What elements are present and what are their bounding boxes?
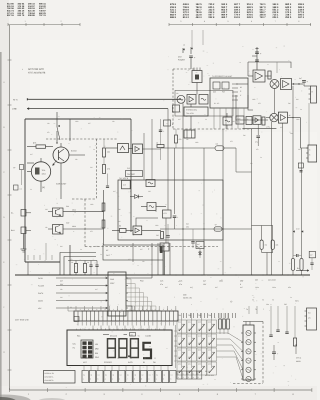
diode D1	[130, 195, 143, 199]
svg-text:FLASH: FLASH	[38, 285, 45, 288]
svg-text:MW: MW	[95, 348, 99, 351]
svg-text:100n: 100n	[219, 280, 223, 283]
svg-text:*: *	[22, 69, 23, 72]
svg-text:ILL: ILL	[11, 211, 14, 214]
svg-text:CAS- UNIT: CAS- UNIT	[56, 182, 67, 185]
matrix top pin groups	[184, 313, 236, 318]
svg-text:47u: 47u	[255, 141, 258, 144]
TP stub	[13, 165, 24, 186]
svg-text:FM: FM	[95, 352, 98, 355]
svg-text:4u7: 4u7	[203, 280, 206, 283]
ruler top-left	[8, 20, 80, 26]
resistor R out1	[268, 71, 271, 79]
cap C right col	[156, 119, 165, 160]
svg-text:3: 3	[188, 376, 189, 379]
svg-text:SHCK: SHCK	[38, 292, 44, 295]
display to buttons stubs	[84, 366, 168, 371]
matrix to driver bundle	[217, 333, 244, 379]
svg-text:0: 0	[198, 373, 199, 376]
svg-text:C26: C26	[179, 280, 182, 283]
ruler top-right	[169, 20, 311, 26]
svg-text:BC558: BC558	[71, 150, 77, 153]
button row	[82, 371, 176, 383]
svg-text:G: G	[3, 351, 5, 354]
svg-text:4: 4	[193, 376, 194, 379]
nested corner loops	[60, 245, 96, 275]
wire mesh left block	[27, 119, 218, 247]
strip stub wires	[76, 306, 176, 330]
speaker connector J1	[309, 86, 317, 103]
wires center drop	[133, 119, 170, 275]
svg-text:AT A: AT A	[13, 98, 18, 101]
svg-text:TD3: TD3	[198, 314, 201, 317]
svg-text:46: 46	[289, 114, 291, 117]
if amp box	[187, 95, 196, 105]
label C4 TA7	[119, 167, 143, 180]
svg-text:TU STEREO TUN UNIT: TU STEREO TUN UNIT	[212, 75, 233, 78]
svg-text:TA7 APP: TA7 APP	[127, 173, 136, 176]
under bus label row	[165, 286, 299, 303]
svg-text:10u: 10u	[266, 303, 269, 306]
svg-text:686 6: 686 6	[170, 16, 177, 19]
mid capsule TP	[214, 224, 222, 232]
svg-text:TD4: TD4	[208, 314, 211, 317]
button row label block	[44, 371, 76, 384]
parts table top-left	[7, 3, 46, 18]
display bottom labels	[83, 358, 156, 364]
bplus capsule cluster right	[291, 228, 303, 275]
input line LINE	[12, 108, 168, 111]
seven-seg digit 1	[108, 339, 116, 358]
stub wires from ruler	[192, 30, 203, 47]
svg-text:SAA: SAA	[110, 278, 115, 281]
small box on dashdot 2	[173, 105, 180, 112]
J1 down wire	[308, 103, 310, 145]
svg-text:2k2: 2k2	[107, 151, 110, 154]
mid left column components	[156, 148, 179, 275]
svg-text:91: 91	[143, 361, 145, 364]
seven-seg digit 2	[119, 339, 127, 358]
display unit box	[67, 330, 172, 366]
connector stub ILL	[11, 210, 31, 217]
svg-text:LINE: LINE	[12, 108, 17, 111]
transistor Q2	[48, 205, 104, 217]
svg-text:NOTE 4 W: NOTE 4 W	[183, 297, 192, 300]
switch S1	[56, 112, 60, 144]
right edge text SP	[296, 344, 302, 363]
svg-text:30k: 30k	[66, 205, 69, 208]
bottom border line	[10, 388, 313, 396]
indicator block	[73, 340, 100, 359]
filter box F3	[199, 95, 208, 105]
svg-text:680k: 680k	[72, 208, 76, 211]
right block frame wires	[236, 84, 302, 275]
amp row frame	[175, 91, 233, 117]
svg-text:MR 14 ALL: MR 14 ALL	[205, 374, 214, 377]
svg-text:1k: 1k	[71, 261, 73, 264]
parts table top-right	[170, 3, 305, 19]
svg-text:47k: 47k	[33, 142, 36, 145]
svg-text:CHANGE B: CHANGE B	[45, 379, 55, 382]
svg-text:7: 7	[180, 111, 181, 114]
svg-text:STEREO: STEREO	[104, 361, 112, 364]
svg-text:1054: 1054	[42, 173, 46, 176]
svg-text:POWER: POWER	[178, 58, 185, 61]
svg-text:47k: 47k	[179, 138, 182, 141]
resistor R47k	[27, 142, 53, 149]
transistor Q3	[48, 221, 104, 234]
decoupling cap stack	[252, 47, 262, 70]
scatter labels speckle	[30, 92, 302, 303]
power amp U8	[278, 112, 300, 123]
svg-text:2: 2	[183, 376, 184, 379]
diode matrix cells	[177, 320, 217, 375]
tuner unit box	[210, 75, 248, 129]
ground sym	[21, 234, 27, 253]
svg-text:2k2: 2k2	[284, 303, 287, 306]
svg-text:100n: 100n	[255, 286, 259, 289]
see note text	[183, 293, 192, 299]
mcu pin staircase	[126, 279, 160, 311]
svg-text:12: 12	[183, 44, 185, 47]
power amp U5	[248, 70, 271, 82]
mid capsule CB	[161, 143, 252, 172]
svg-text:813 2: 813 2	[183, 16, 190, 19]
svg-text:SP4 C: SP4 C	[296, 357, 302, 360]
svg-text:MSL: MSL	[73, 343, 77, 346]
svg-text:CHANGE A: CHANGE A	[45, 376, 55, 379]
buffer circle A1	[270, 80, 279, 89]
pin number row above display	[76, 327, 164, 330]
svg-text:657 18: 657 18	[7, 14, 14, 17]
svg-text:463 3: 463 3	[196, 16, 203, 19]
tuner dash-dot boundary	[173, 69, 252, 129]
transistor Q1	[53, 143, 86, 199]
svg-text:252 5: 252 5	[285, 16, 292, 19]
small margin box	[14, 185, 22, 190]
corner smudge bottom-left	[0, 395, 66, 400]
svg-text:PAS: PAS	[95, 356, 100, 359]
speaker connector J2	[306, 145, 317, 162]
svg-text:0: 0	[193, 373, 194, 376]
svg-text:9: 9	[240, 283, 241, 286]
svg-text:187 3: 187 3	[298, 16, 305, 19]
svg-text:1k: 1k	[156, 142, 158, 145]
tick line right of display	[174, 325, 177, 368]
matrix bottom code row	[177, 371, 202, 379]
small box on dashdot	[164, 120, 175, 126]
svg-text:1k5: 1k5	[276, 244, 279, 247]
stereo decoder box	[180, 104, 208, 129]
svg-text:4u7: 4u7	[299, 77, 302, 80]
svg-text:7: 7	[263, 308, 264, 311]
connector stub GND	[11, 227, 31, 234]
svg-text:LOUD: LOUD	[146, 335, 152, 338]
svg-text:0: 0	[188, 373, 189, 376]
note text	[22, 68, 46, 74]
bus feed resistors	[28, 261, 99, 276]
svg-text:112 8: 112 8	[234, 16, 241, 19]
resistor R2k2 lower	[103, 165, 110, 174]
filter box F2	[141, 203, 166, 211]
main bottom bus	[15, 274, 310, 275]
svg-text:757 31: 757 31	[39, 14, 46, 17]
op-amp U2	[118, 144, 133, 153]
long bus wires middle	[168, 103, 223, 275]
svg-text:2k: 2k	[119, 225, 121, 228]
svg-text:TD2: TD2	[188, 314, 191, 317]
feedback loop box	[236, 62, 291, 120]
mid cap group	[191, 229, 204, 258]
svg-text:DISPLAY P1: DISPLAY P1	[45, 372, 55, 375]
right edge small box	[309, 251, 315, 270]
transformer box below	[184, 130, 195, 138]
ch2 line to connector	[301, 118, 309, 148]
B+ arrow	[296, 267, 309, 271]
svg-text:TDA 1578: TDA 1578	[186, 112, 194, 115]
svg-text:1.0: 1.0	[123, 184, 126, 187]
svg-text:TD1: TD1	[178, 314, 181, 317]
bus labels right	[255, 278, 291, 289]
right edge connector J6	[305, 308, 317, 330]
resistor R out2	[262, 117, 265, 125]
main unit box outline	[25, 119, 131, 262]
svg-text:508 68: 508 68	[28, 14, 35, 17]
dash-dot sub-box	[46, 139, 117, 199]
sub box AF	[103, 245, 163, 275]
matrix header labels	[178, 314, 211, 317]
svg-text:749 7: 749 7	[260, 16, 267, 19]
svg-text:228 9: 228 9	[247, 16, 254, 19]
decimal point	[128, 355, 130, 357]
buffer circle A2	[266, 113, 278, 121]
svg-text:204 1: 204 1	[272, 16, 279, 19]
tda box ch2	[236, 116, 244, 124]
electrolytic dark mid	[160, 224, 170, 253]
resistor R2k2 upper	[103, 148, 110, 157]
mcu signal lines	[38, 277, 108, 310]
small box ch2b	[246, 117, 253, 125]
mcu box U10	[108, 272, 128, 316]
driver IC U11	[241, 322, 263, 382]
feedback bracket U4	[136, 218, 158, 226]
svg-text:AT E 20337027B: AT E 20337027B	[28, 71, 46, 74]
driver IC top labels	[246, 306, 264, 314]
scan haze dots	[16, 46, 307, 391]
svg-text:47u: 47u	[179, 283, 182, 286]
strip pin numbers	[76, 308, 177, 311]
box 1.0	[122, 180, 131, 188]
svg-text:STEREO DEC: STEREO DEC	[186, 109, 198, 112]
matrix column wires	[182, 313, 212, 368]
svg-text:INFO: INFO	[128, 361, 133, 364]
crystal box	[192, 68, 202, 95]
digit five	[143, 343, 151, 358]
resistor 2k	[112, 225, 133, 233]
svg-text:385 7: 385 7	[221, 16, 228, 19]
op-amp U4	[133, 226, 161, 235]
svg-text:NOT FOR SITE: NOT FOR SITE	[28, 68, 45, 71]
svg-text:100n: 100n	[272, 286, 276, 289]
svg-text:680k: 680k	[72, 225, 76, 228]
power amp U6	[281, 79, 304, 90]
svg-text:DLEN: DLEN	[38, 300, 44, 303]
antenna cluster	[178, 44, 196, 70]
svg-text:1k: 1k	[87, 261, 89, 264]
bus labels	[60, 280, 243, 287]
scan edge streak	[0, 52, 2, 400]
right small components	[266, 303, 297, 360]
input line AT-A	[13, 98, 181, 101]
svg-text:MW: MW	[255, 278, 258, 281]
svg-text:30k: 30k	[66, 221, 69, 224]
svg-text:(a): (a)	[42, 186, 45, 189]
svg-text:LW: LW	[95, 343, 98, 346]
ch2 lower line	[242, 124, 276, 146]
svg-text:C25: C25	[160, 280, 163, 283]
svg-text:MAIN: MAIN	[296, 360, 301, 363]
svg-text:DAY TIME USE: DAY TIME USE	[15, 319, 30, 322]
label day time	[15, 317, 79, 322]
svg-text:47k: 47k	[107, 168, 110, 171]
svg-text:1: 1	[178, 376, 179, 379]
out cap C+	[299, 77, 311, 86]
svg-text:9 1 6 3: 9 1 6 3	[214, 102, 219, 105]
svg-text:0: 0	[178, 373, 179, 376]
dash-dot right of driver	[233, 322, 263, 384]
svg-text:2k2: 2k2	[156, 234, 159, 237]
mcu-strip link	[68, 275, 152, 311]
svg-text:BEACON: BEACON	[110, 334, 118, 337]
filter box F5	[223, 113, 232, 129]
resistor R mid col	[175, 129, 182, 148]
resistor capsule pair right	[252, 226, 279, 276]
svg-text:5: 5	[198, 376, 199, 379]
filter box F1	[146, 180, 155, 187]
preamp box B	[118, 180, 223, 240]
svg-text:4n7: 4n7	[60, 280, 63, 283]
svg-text:21: 21	[70, 306, 72, 309]
seven-seg digit 3	[131, 339, 139, 358]
power amp U7	[253, 116, 262, 125]
svg-text:8: 8	[309, 149, 310, 152]
connector strip J5	[74, 311, 178, 321]
display top labels	[77, 333, 152, 338]
svg-text:8: 8	[309, 154, 310, 157]
matrix resistor trio	[219, 313, 230, 334]
IC circle U1	[27, 158, 51, 192]
svg-text:DATA: DATA	[38, 277, 43, 280]
long vertical left of boxB	[102, 190, 105, 245]
svg-text:AM-LOUD: AM-LOUD	[268, 278, 277, 281]
svg-text:47u: 47u	[160, 283, 163, 286]
svg-text:MW: MW	[240, 280, 243, 283]
op-amp U3	[133, 144, 162, 154]
svg-text:633 79: 633 79	[18, 14, 25, 17]
oscillator circle	[177, 95, 185, 103]
bottom right small parts	[298, 163, 303, 172]
svg-text:992 8: 992 8	[208, 16, 215, 19]
mid horizontal tie	[160, 222, 252, 229]
wires display feed	[28, 243, 52, 260]
left border line	[3, 25, 11, 390]
